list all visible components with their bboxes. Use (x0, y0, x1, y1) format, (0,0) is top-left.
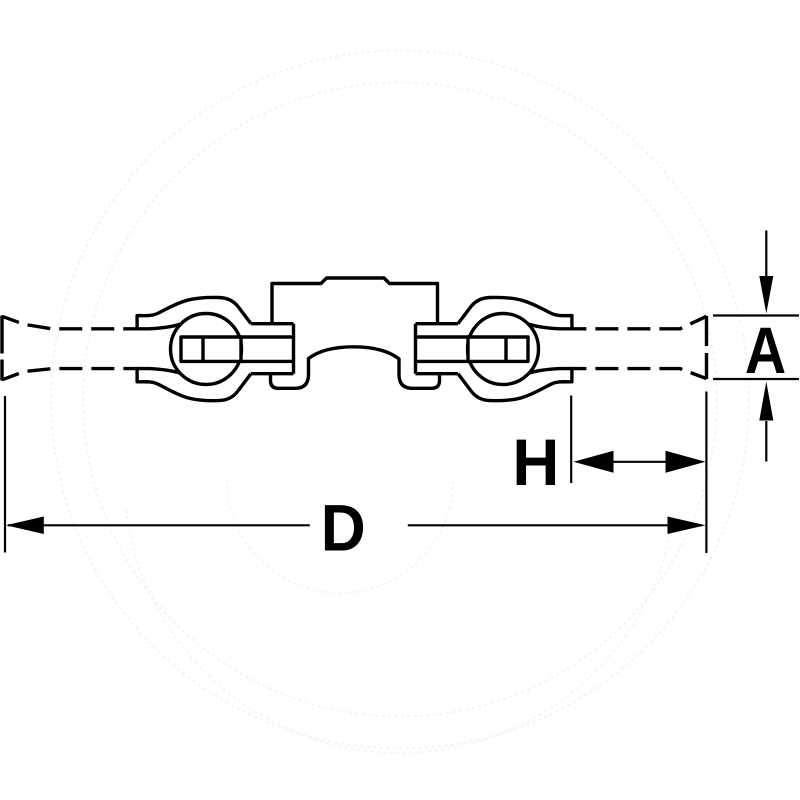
clamp top strap outer edge and end (458, 297, 572, 328)
dim H extension line left (570, 396, 572, 484)
dim A arrowhead down (759, 276, 773, 314)
watermark arc r276 bottom (126, 510, 674, 753)
left rod dashed top edge (2, 316, 137, 329)
bar top line (416, 335, 469, 338)
clamp ring circle (171, 314, 242, 385)
cap sleeve bottom line (416, 372, 459, 375)
watermark inner ring (83, 83, 717, 717)
bar bottom line (241, 360, 294, 363)
clamp bottom strap outer edge and end (458, 369, 572, 401)
cap sleeve top line (416, 322, 459, 325)
dim A extension line bottom (713, 378, 799, 380)
cap sleeve left edge (414, 324, 417, 374)
cap sleeve top line (251, 322, 294, 325)
dim D line left segment (8, 524, 310, 526)
left rod dashed bottom edge (2, 369, 137, 380)
cap sleeve bottom line (251, 372, 294, 375)
dim A arrowhead up (759, 382, 773, 421)
rod end rectangle (181, 337, 241, 361)
watermark small arc (227, 480, 453, 593)
clamp bottom strap outer edge and end (137, 369, 251, 401)
rod end divider (504, 337, 507, 361)
right clamp group (416, 297, 572, 400)
svg-text:H: H (512, 426, 559, 499)
dim A extension line top (713, 314, 799, 316)
dim D arrowhead left (6, 517, 44, 535)
dim A arrow line top (765, 231, 767, 278)
clamp top strap outer edge and end (137, 297, 251, 328)
rod end rectangle (468, 337, 528, 361)
svg-text:D: D (321, 491, 366, 565)
dim H arrowhead left (574, 451, 614, 473)
rod end divider (201, 337, 204, 361)
dim A arrow line bottom (765, 421, 767, 462)
center bracket bottom arch and feet (271, 347, 440, 389)
left rod dashed end (0, 316, 3, 381)
dim D line right segment (408, 524, 702, 526)
center bracket top outline with notch (272, 278, 438, 324)
clamp ring circle (468, 314, 539, 385)
bar bottom line (416, 360, 469, 363)
bar top line (241, 335, 294, 338)
right rod dashed end (705, 316, 708, 379)
right rod dashed bottom edge (572, 369, 707, 379)
watermark outer ring (51, 51, 749, 749)
cap sleeve right edge (mirrored) (292, 324, 295, 374)
right rod dashed top edge (572, 316, 707, 329)
dim D arrowhead right (668, 517, 706, 535)
dim D extension line left (4, 396, 6, 553)
dim H / D extension line right (705, 392, 707, 554)
svg-text:A: A (745, 314, 786, 388)
dim H arrow line (613, 461, 666, 463)
dim H arrowhead right (666, 451, 706, 473)
left clamp (mirror) (137, 297, 293, 400)
